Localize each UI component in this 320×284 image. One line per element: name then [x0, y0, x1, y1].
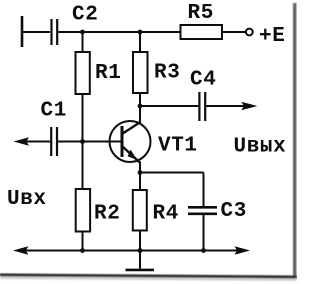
svg-text:C1: C1 [41, 100, 67, 123]
svg-text:C2: C2 [72, 4, 98, 27]
svg-text:C4: C4 [190, 69, 216, 92]
svg-text:R2: R2 [94, 203, 120, 226]
svg-text:R4: R4 [153, 203, 179, 226]
svg-text:C3: C3 [221, 200, 247, 223]
svg-text:R5: R5 [188, 2, 214, 25]
svg-text:Uвх: Uвх [7, 188, 47, 211]
svg-text:R3: R3 [154, 62, 180, 85]
svg-text:Uвых: Uвых [234, 136, 287, 159]
svg-text:R1: R1 [95, 62, 121, 85]
svg-text:+E: +E [259, 25, 285, 48]
svg-text:VT1: VT1 [158, 135, 198, 158]
